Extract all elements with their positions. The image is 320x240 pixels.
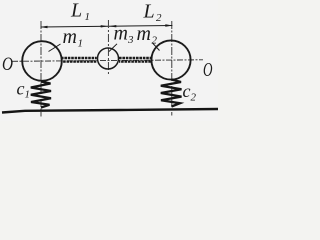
spring c1 — [31, 82, 51, 108]
paper background — [0, 0, 218, 121]
svg-text:1: 1 — [85, 11, 91, 23]
svg-text:2: 2 — [156, 12, 162, 24]
svg-text:L: L — [70, 0, 82, 22]
svg-text:O: O — [203, 59, 213, 81]
spring c2 — [161, 80, 182, 107]
centerline left disc (vertical dash-dot) — [40, 21, 42, 117]
centerline middle disc (vertical) — [107, 20, 109, 74]
shaft right segment (between m3 and m2) — [119, 58, 153, 62]
ground — [2, 109, 218, 113]
horizontal axis centerline O-O' — [12, 60, 203, 62]
dimension L1 — [40, 25, 108, 28]
svg-text:m: m — [63, 26, 77, 48]
svg-text:c: c — [17, 79, 25, 99]
svg-text:1: 1 — [78, 38, 84, 50]
centerline right disc (vertical dash-dot) — [171, 21, 173, 116]
svg-text:O: O — [2, 54, 13, 75]
svg-text:L: L — [143, 1, 155, 23]
leader m3 — [109, 44, 117, 52]
disc m3 — [98, 48, 119, 69]
svg-text:3: 3 — [127, 34, 134, 46]
svg-text:1: 1 — [25, 89, 31, 101]
disc m1 — [22, 41, 62, 81]
svg-text:m: m — [114, 22, 128, 44]
svg-text:c: c — [183, 81, 191, 101]
dimension L2 — [109, 24, 173, 27]
svg-text:2: 2 — [152, 35, 158, 47]
leader m2 — [153, 43, 160, 51]
svg-text:2: 2 — [191, 92, 197, 104]
shaft left segment (between m1 and m3) — [61, 58, 97, 62]
disc m2 — [151, 40, 190, 79]
leader m1 — [49, 44, 61, 52]
svg-text:m: m — [137, 23, 151, 45]
